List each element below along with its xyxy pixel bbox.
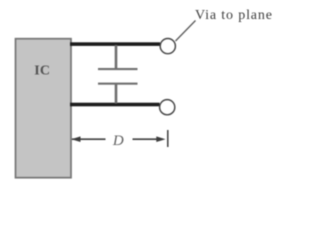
dimension line left segment: [72, 138, 106, 140]
capacitor C plate bottom: [98, 83, 138, 85]
svg-text:Via to plane: Via to plane: [195, 8, 273, 23]
dimension arrowhead right: [156, 136, 165, 142]
wire top trace: [70, 42, 160, 46]
via top (to plane): [160, 39, 175, 54]
capacitor C plate top: [98, 68, 138, 70]
leader line to label: [176, 21, 196, 42]
via bottom: [160, 100, 175, 115]
capacitor C lead top: [115, 45, 118, 69]
dimension arrowhead left: [71, 136, 80, 142]
IC package: [16, 39, 72, 178]
dimension line right segment: [133, 138, 164, 140]
wire bottom trace: [70, 103, 160, 107]
dimension tick: [167, 130, 169, 147]
svg-text:D: D: [112, 133, 124, 149]
svg-text:IC: IC: [34, 64, 50, 79]
capacitor C lead bottom: [115, 85, 118, 104]
